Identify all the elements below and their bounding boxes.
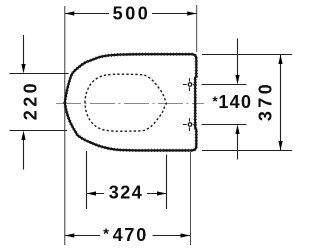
extension line 370 bottom — [202, 150, 292, 152]
dimension line *470 left segment — [65, 235, 100, 237]
extension line *140 bottom — [202, 124, 247, 126]
arrowhead *140 lower — [235, 125, 239, 135]
svg-text:370: 370 — [255, 81, 275, 121]
dimension line 220 upper segment — [23, 35, 25, 65]
dimension line 220 lower segment — [23, 140, 25, 170]
arrowhead 324 right — [157, 191, 167, 195]
extension line 220 bottom — [10, 130, 68, 132]
svg-text:220: 220 — [20, 80, 40, 120]
extension line *470 right (hinge axis) — [190, 152, 192, 245]
dimension line *140 lower segment — [237, 134, 239, 160]
dimension line 500 right segment — [152, 13, 197, 15]
arrowhead 370 bottom — [278, 141, 282, 151]
arrowhead *470 left — [65, 233, 75, 237]
hinge hole bottom crosshair — [183, 118, 197, 131]
extension line 220 top — [10, 73, 69, 75]
arrowhead 370 top — [278, 55, 282, 65]
hinge hole top — [188, 83, 192, 87]
seat outer contour serrated texture — [65, 54, 197, 150]
extension line 324 left — [86, 151, 88, 209]
dimension line 324 left segment — [87, 193, 105, 195]
dimension line *140 upper segment — [237, 39, 239, 76]
svg-text:140: 140 — [218, 92, 252, 112]
extension line 370 top — [202, 54, 292, 56]
arrowhead *470 right — [181, 233, 191, 237]
dimension *140 (hinge hole spacing, arrows outside) — [202, 39, 253, 160]
extension line, seat rear edge (top right, for 500) — [196, 5, 198, 52]
arrowhead 220 lower — [21, 131, 25, 141]
arrowhead 500 right — [187, 11, 197, 15]
dimension line 370 — [280, 55, 282, 151]
extension line, seat front edge (left, shared by 500 and *470) — [64, 6, 66, 245]
svg-text:500: 500 — [113, 4, 151, 24]
svg-text:324: 324 — [109, 183, 144, 203]
svg-text:*: * — [103, 226, 109, 243]
hinge hole bottom — [188, 123, 192, 127]
dimension line 500 left segment — [65, 13, 109, 15]
dimension 500 (overall length, top) — [65, 4, 197, 24]
dimension *470 (front edge to hinge axis) — [65, 152, 191, 245]
seat inner opening contour (dashed) — [85, 74, 166, 131]
dimension 370 (overall width, right side) — [202, 55, 292, 151]
arrowhead 220 upper — [21, 64, 25, 74]
svg-text:470: 470 — [113, 225, 148, 245]
dimension 324 (inner opening length) — [87, 151, 167, 209]
arrowhead 500 left — [65, 11, 75, 15]
arrowhead *140 upper — [235, 75, 239, 85]
extension line 324 right — [166, 155, 168, 210]
dimension 220 (front width, left side, arrows outside) — [10, 35, 69, 170]
hinge hole top crosshair — [183, 78, 197, 91]
seat outer contour — [65, 54, 197, 150]
dimension line *470 right segment — [153, 235, 191, 237]
centerline, horizontal axis of seat (dash-dot) — [56, 103, 204, 105]
dimension line 324 right segment — [147, 193, 167, 195]
extension line *140 top — [202, 84, 247, 86]
arrowhead 324 left — [87, 191, 97, 195]
